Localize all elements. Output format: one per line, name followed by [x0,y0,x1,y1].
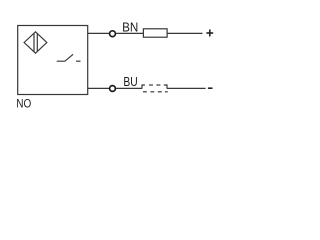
BN terminal circle [110,31,116,37]
proximity sensor diamond symbol [24,32,47,53]
wire dashed load to minus [167,87,206,89]
wire resistor to plus [167,32,202,34]
svg-text:BU: BU [123,74,137,89]
wire terminal to dashed load [116,87,142,89]
svg-text:BN: BN [122,20,138,35]
NO switch contact [57,54,81,61]
BU terminal circle [110,86,116,92]
wire terminal to load resistor [116,32,143,34]
wire box to BU terminal [88,87,109,89]
sensor body box [18,26,88,95]
wire box to BN terminal [88,32,109,34]
plus terminal [206,30,213,37]
minus terminal [208,87,213,89]
load resistor box [143,29,167,37]
optional load dashed box [142,85,168,92]
svg-text:NO: NO [16,97,31,111]
